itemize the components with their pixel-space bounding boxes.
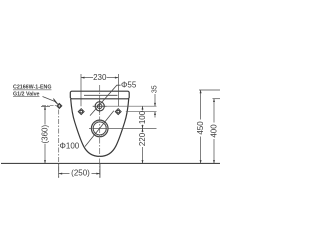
leader from G1/2 Valve text: [43, 97, 56, 102]
horizontal ext line at inlet level: [93, 105, 157, 107]
valve vertical ext dash-dot: [58, 110, 60, 178]
dim (250): [59, 163, 100, 177]
svg-text:100: 100: [138, 110, 147, 124]
dim 450: [199, 89, 220, 91]
svg-text:450: 450: [196, 121, 205, 135]
dim 230: [81, 74, 118, 106]
dim 100 / 220 chain: [142, 106, 144, 163]
wire: left valve ext line at y105.7: [42, 105, 57, 107]
svg-text:Φ100: Φ100: [60, 142, 80, 151]
fixing hole level ext line (right): [126, 111, 157, 113]
floor line: [1, 162, 220, 164]
svg-text:Φ55: Φ55: [121, 81, 137, 90]
centerline ext below floor: [99, 163, 101, 177]
center line (vertical dash-dot): [99, 85, 101, 178]
left fixing hole: [78, 109, 84, 115]
dim 400: [213, 98, 221, 100]
outlet center level ext line: [89, 127, 157, 129]
svg-text:(360): (360): [40, 125, 49, 144]
valve symbol: [57, 103, 62, 108]
right fixing hole: [115, 109, 121, 115]
leader for phi55: [90, 85, 121, 115]
toilet rim (top band): [70, 91, 129, 99]
svg-text:35: 35: [151, 85, 158, 93]
svg-text:(250): (250): [71, 169, 90, 178]
svg-text:400: 400: [209, 124, 218, 138]
rim inner line: [84, 94, 118, 96]
svg-text:C2166W-1-ENG: C2166W-1-ENG: [13, 85, 51, 91]
flush inlet circle phi55: [93, 100, 107, 114]
toilet body outline: [71, 99, 129, 156]
leader for phi100: [85, 111, 114, 147]
outlet circle phi100: [91, 120, 108, 137]
svg-text:G1/2 Valve: G1/2 Valve: [13, 91, 40, 97]
dim 35: [154, 94, 156, 118]
svg-text:230: 230: [93, 73, 107, 82]
dim (360): [41, 105, 50, 107]
svg-text:220: 220: [138, 132, 147, 146]
